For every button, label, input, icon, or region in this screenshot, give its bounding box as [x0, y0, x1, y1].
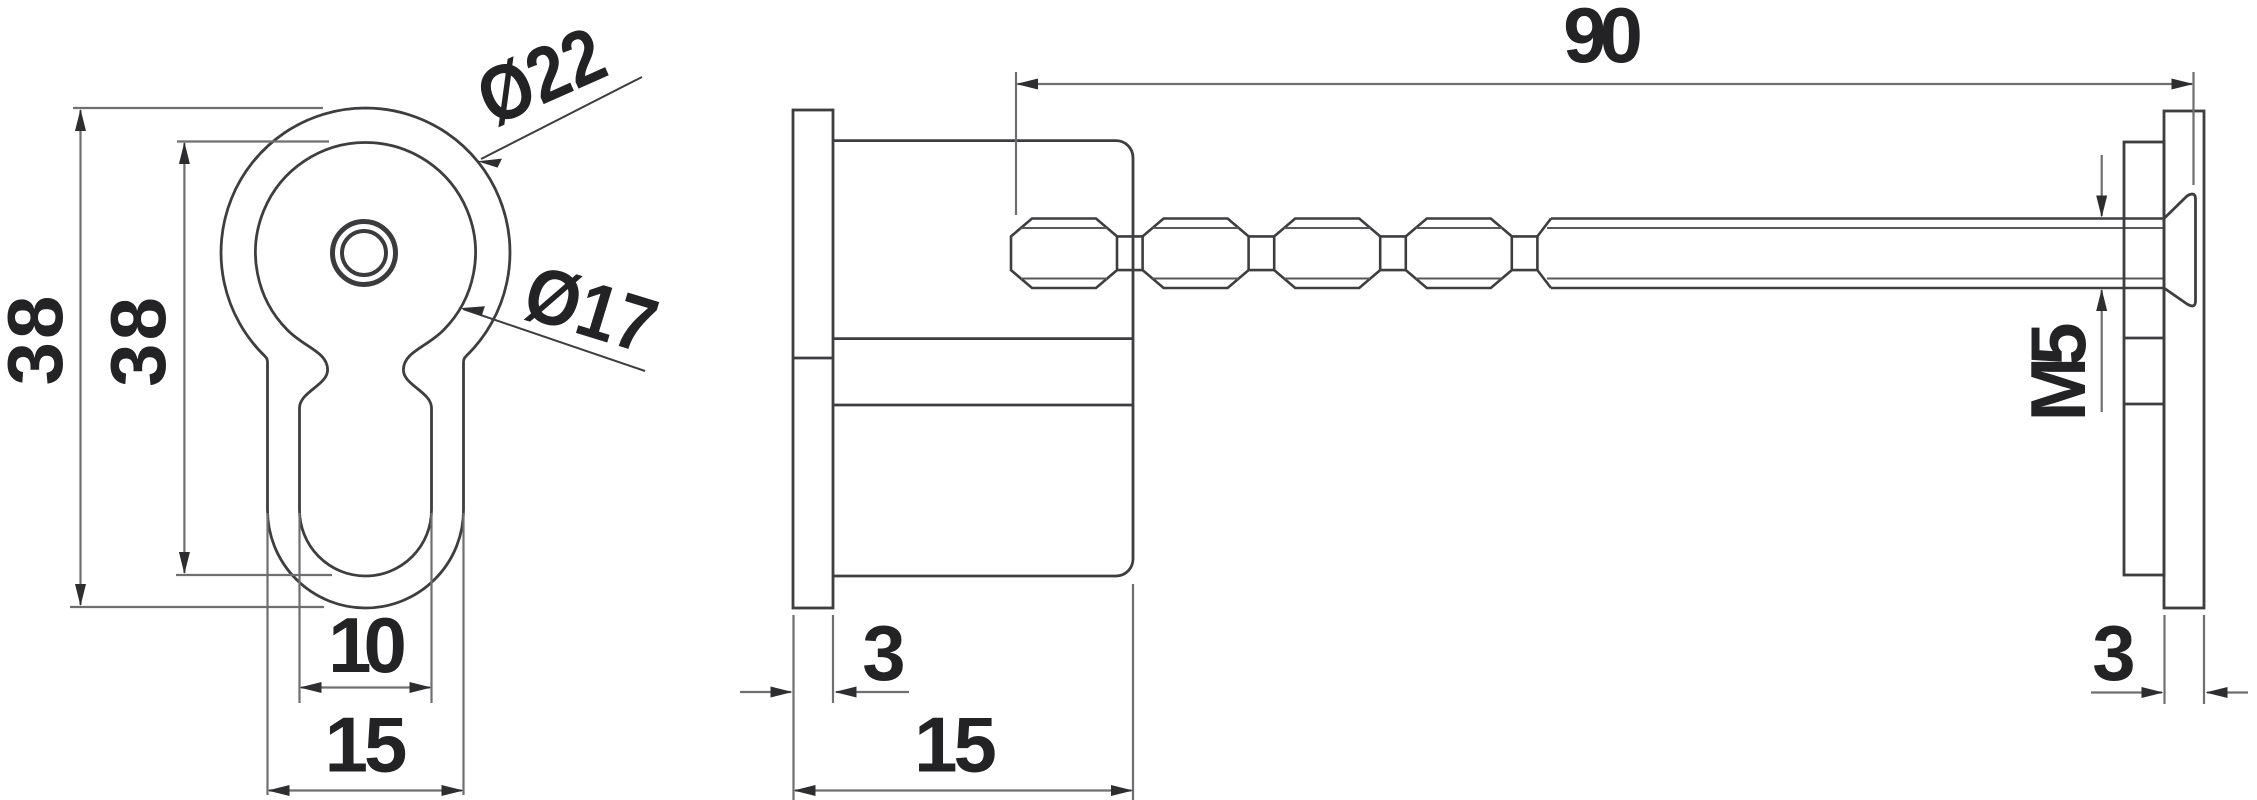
arrow line lower M5: [2101, 290, 2103, 412]
center hole inner ring: [342, 231, 386, 275]
arrow line left dim 3 left: [740, 691, 791, 693]
ext line right dim 3 left: [832, 615, 834, 703]
rib 1 chamfer edge line bottom: [1021, 278, 1107, 280]
rib segment 1: [1011, 219, 1117, 289]
rib segment 4: [1406, 219, 1512, 289]
leader arrow diameter 17: [460, 306, 485, 315]
arrow 3 right b: [2206, 687, 2228, 698]
rib 2 chamfer edge line bottom: [1153, 278, 1239, 280]
rib 2 chamfer edge line top: [1153, 227, 1239, 229]
thread crest line bottom: [1551, 287, 2164, 290]
ext line right dim 15 side: [1132, 584, 1134, 800]
svg-text:Ø22: Ø22: [464, 9, 618, 142]
leader line for diameter 22: [481, 77, 642, 159]
rib 1 chamfer edge line top: [1021, 227, 1107, 229]
leader arrow diameter 22: [478, 159, 503, 168]
arrow 3 right a: [2142, 687, 2164, 698]
svg-text:3: 3: [862, 609, 905, 697]
ext line right dim 15 left view: [462, 513, 464, 795]
ext line bottom inner 38: [176, 574, 332, 576]
dim line 90: [1018, 83, 2193, 85]
arrow 15 left (left view): [268, 785, 290, 796]
ext line top outer 38: [73, 107, 323, 109]
arrow M5 lower: [2096, 289, 2107, 311]
flange split line: [793, 357, 833, 360]
dim line 10: [301, 686, 430, 688]
arrow 10 right: [410, 682, 432, 693]
rib 3 chamfer edge line top: [1284, 227, 1370, 229]
dim line 15 side: [795, 789, 1132, 791]
inner plate groove line lower: [2124, 403, 2164, 406]
ext line left dim 15 left view: [266, 513, 268, 795]
keyhole inner cutout contour: [255, 142, 475, 576]
leader line for diameter 17: [463, 309, 645, 371]
arrow 90 right: [2172, 79, 2194, 90]
ext line right dim 90: [2192, 72, 2194, 185]
dim line outer 38: [79, 110, 81, 605]
thread crest line top: [1551, 217, 2164, 220]
arrow 15 side right: [1111, 785, 1133, 796]
arrow line right dim 3 right: [2207, 691, 2248, 693]
arrow 15 right (left view): [442, 785, 464, 796]
svg-text:38: 38: [0, 293, 79, 386]
rib 3 chamfer edge line bottom: [1284, 278, 1370, 280]
center hole outer ring: [333, 222, 396, 285]
ext line right dim 10: [430, 513, 432, 703]
thread root line top: [1547, 227, 2164, 229]
keyhole outer contour: [221, 108, 510, 608]
svg-text:10: 10: [328, 601, 404, 689]
right outer plate: [2164, 111, 2204, 608]
arrow 15 side left: [794, 785, 816, 796]
ext line left dim 3 left: [792, 615, 794, 800]
svg-text:90: 90: [1563, 0, 1640, 79]
rib segment 2: [1143, 219, 1249, 289]
barrel body: [833, 141, 1133, 576]
neck 2: [1249, 236, 1275, 270]
rib 4 chamfer edge line top: [1416, 227, 1502, 229]
thread root line bottom: [1547, 278, 2164, 280]
arrow line left dim 3 right: [2091, 691, 2162, 693]
arrow inner 38 top: [179, 142, 190, 164]
dim line inner 38: [183, 143, 185, 573]
ext line left dim 90: [1015, 72, 1017, 215]
svg-text:38: 38: [94, 294, 182, 387]
neck 3: [1380, 236, 1406, 270]
neck 4: [1512, 236, 1538, 270]
arrow outer 38 bottom: [75, 584, 86, 606]
ext line top inner 38: [177, 140, 329, 142]
ext line bottom outer 38: [70, 606, 324, 608]
arrow 90 left: [1016, 79, 1038, 90]
rib 4 chamfer edge line bottom: [1416, 278, 1502, 280]
neck 1: [1117, 236, 1143, 270]
arrow inner 38 bottom: [179, 552, 190, 574]
inner plate groove line upper: [2124, 337, 2164, 340]
arrow line right dim 3 left: [836, 691, 909, 693]
dim line 15 left view: [269, 789, 462, 791]
svg-text:Ø17: Ø17: [515, 248, 667, 370]
arrow M5 upper: [2096, 196, 2107, 218]
right inner plate: [2124, 142, 2164, 575]
svg-text:15: 15: [325, 701, 406, 789]
svg-text:3: 3: [2092, 609, 2135, 697]
left flange plate: [793, 110, 833, 608]
ext line right dim 3 right: [2203, 615, 2205, 704]
body groove line lower: [833, 404, 1133, 407]
ext line left dim 10: [298, 513, 300, 703]
arrow 3 left b: [835, 687, 857, 698]
shaft chamfer from neck to thread: [1537, 219, 1551, 289]
body groove line upper: [833, 337, 1133, 340]
ext line left dim 3 right: [2163, 615, 2165, 704]
rib segment 3: [1274, 219, 1380, 289]
arrow line upper M5: [2101, 155, 2103, 216]
svg-text:15: 15: [914, 701, 995, 789]
arrow 3 left a: [771, 687, 793, 698]
svg-text:M5: M5: [2014, 324, 2102, 422]
arrow outer 38 top: [75, 109, 86, 131]
arrow 10 left: [300, 682, 322, 693]
countersunk screw head: [2164, 194, 2196, 306]
